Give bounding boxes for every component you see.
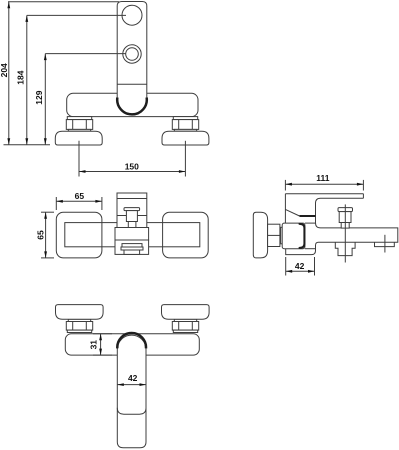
right nut top strip — [173, 117, 197, 120]
right nut facets — [178, 120, 180, 130]
knob stem — [128, 222, 136, 228]
svg-text:42: 42 — [295, 261, 305, 271]
left nut body — [66, 120, 92, 130]
cap seam — [117, 198, 147, 200]
cartridge cap — [117, 193, 147, 228]
nut side — [268, 224, 280, 246]
svg-text:204: 204 — [0, 63, 9, 77]
left nut lower strip top — [68, 319, 90, 321]
right nut lower facets — [178, 322, 180, 331]
handle seam arc — [117, 408, 146, 414]
handle hanging with U top — [117, 335, 146, 448]
lever top — [285, 193, 363, 195]
dimension 204 — [8, 1, 119, 3]
wall flange side — [253, 212, 267, 258]
svg-text:31: 31 — [88, 340, 98, 350]
svg-text:184: 184 — [15, 70, 25, 84]
svg-text:42: 42 — [128, 373, 138, 383]
dimension 65 top — [55, 197, 57, 210]
spout inner wide — [121, 247, 143, 250]
right wall flange — [162, 131, 209, 145]
dimension 42 bottom — [117, 384, 146, 386]
shower outlet centerline — [384, 235, 386, 253]
nut side facet — [268, 234, 280, 236]
svg-text:111: 111 — [316, 173, 330, 183]
escutcheon square — [282, 223, 305, 249]
lever front edge — [284, 194, 286, 223]
right square flange — [163, 212, 209, 258]
diverter knob cap — [338, 208, 353, 212]
valve bottom line — [305, 248, 316, 250]
dimension 150 — [78, 141, 80, 177]
shower outlet step — [375, 242, 395, 246]
svg-text:129: 129 — [34, 90, 44, 104]
screw circle lower outer — [123, 45, 141, 63]
valve top line — [305, 222, 316, 224]
right nut lower body — [172, 322, 198, 331]
thick arc at U top — [117, 333, 146, 348]
handle seam line — [117, 83, 147, 85]
left nut lower bottom strip — [67, 330, 91, 332]
spout inner upper — [122, 244, 142, 247]
diverter knob body — [339, 212, 351, 223]
thick arc at U bottom — [117, 98, 147, 115]
tub spout outlet — [335, 242, 355, 255]
left nut lower body — [66, 322, 92, 331]
lever base thick line — [300, 215, 316, 217]
svg-text:65: 65 — [36, 230, 46, 240]
connecting bar — [65, 223, 200, 247]
spout inner bottom — [124, 250, 140, 254]
dimension 184 — [27, 14, 126, 16]
left wall flange — [55, 131, 102, 145]
diverter centerline vertical — [344, 204, 346, 262]
handle shaft with U bottom — [117, 2, 147, 115]
right wall flange lower — [162, 305, 210, 320]
svg-text:150: 150 — [125, 161, 139, 171]
spout block — [115, 240, 149, 254]
left square flange — [56, 212, 102, 258]
body bar — [67, 93, 198, 116]
dimension 111 — [284, 180, 286, 191]
dimension 129 — [45, 53, 126, 55]
left nut lower facets — [72, 322, 74, 331]
escutcheon thick right edge — [300, 224, 305, 248]
main block — [115, 228, 149, 241]
left nut facets — [72, 120, 74, 130]
lever right edge — [362, 194, 364, 199]
screw circle top — [122, 5, 142, 25]
lever diagonal — [285, 209, 299, 216]
cartridge shoulder line — [117, 215, 147, 217]
left nut top strip — [67, 117, 91, 120]
right nut lower strip top — [174, 319, 196, 321]
knob cap — [124, 208, 140, 211]
screw circle lower inner — [126, 48, 139, 61]
diverter knob step — [341, 223, 349, 229]
dimension 65 left — [41, 211, 54, 213]
right nut lower bottom strip — [173, 330, 197, 332]
bottom extension line — [4, 144, 51, 146]
right nut body — [172, 120, 198, 130]
left nut bottom strip — [68, 129, 90, 131]
left wall flange lower — [56, 305, 104, 320]
dimension 42 side — [285, 257, 287, 276]
lever underside, back edge, housing and spout outline — [286, 198, 398, 254]
collar strip — [281, 227, 283, 244]
svg-text:65: 65 — [75, 191, 85, 201]
right nut bottom strip — [174, 129, 196, 131]
knob box — [126, 211, 137, 222]
body bar lower — [65, 334, 199, 355]
dimension 31 — [93, 333, 112, 335]
